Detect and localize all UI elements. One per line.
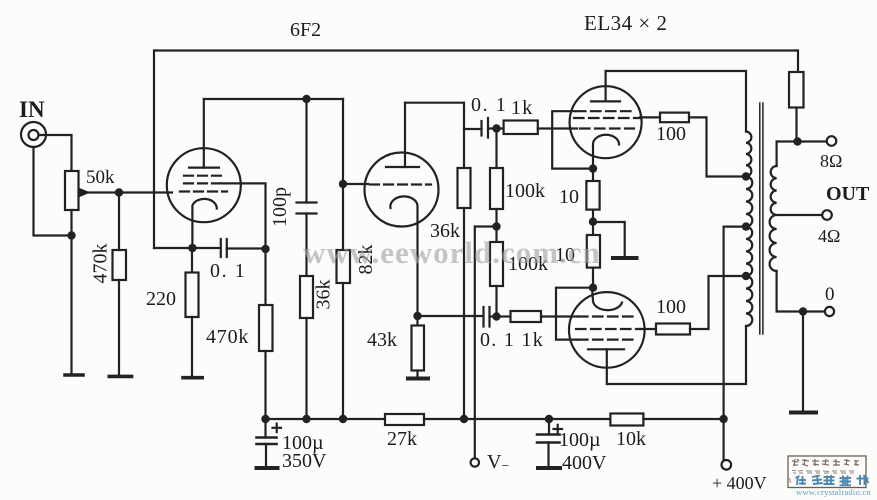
- tube V3 EL34 top envelope: [570, 86, 642, 158]
- svg-text:0: 0: [825, 284, 835, 305]
- transformer T1 core: [759, 103, 761, 334]
- wire: V4 suppressor tie: [556, 288, 592, 340]
- node: V1 plate / 100p: [302, 95, 310, 103]
- svg-text:100p: 100p: [269, 187, 291, 227]
- wire: B+ bus: [266, 418, 386, 420]
- svg-text:+ 400V: + 400V: [712, 473, 767, 493]
- resistor R8 100k grid return top: [495, 129, 497, 167]
- ground: R11: [408, 377, 428, 381]
- svg-text:1k: 1k: [511, 97, 533, 119]
- node: wiper / grid leak: [115, 188, 123, 196]
- capacitor C4 0.1 bottom coupling: [482, 307, 484, 327]
- svg-text:350V: 350V: [282, 450, 327, 472]
- wire: +400V riser and center tap: [724, 227, 746, 460]
- resistor R3 470k screen dropper: [264, 249, 266, 305]
- svg-text:4Ω: 4Ω: [818, 226, 840, 246]
- wire: V1 plate node: [204, 98, 343, 100]
- node: B+ 36k comp: [302, 415, 310, 423]
- node: V1 cathode: [188, 244, 196, 252]
- svg-text:0. 1: 0. 1: [210, 260, 246, 282]
- ground: cathode midpoint: [593, 222, 625, 256]
- node: B+ C5: [261, 415, 269, 423]
- node: V4 grid: [492, 312, 500, 320]
- node: V2 grid coupling: [339, 180, 347, 188]
- ground: C6: [538, 466, 560, 470]
- wire: V3 plate to primary top: [606, 71, 746, 132]
- svg-text:100µ: 100µ: [559, 429, 601, 451]
- svg-text:6F2: 6F2: [290, 19, 321, 41]
- svg-text:470k: 470k: [206, 326, 249, 348]
- wire: direct coupling to V2 grid: [343, 183, 368, 185]
- tube V1 6F2 pentode envelope: [167, 148, 241, 222]
- node: 8 ohm feedback: [793, 137, 801, 145]
- wire: secondary ground: [802, 312, 804, 412]
- node: B+ 82k: [339, 415, 347, 423]
- wire: jack hot to pot top: [39, 135, 72, 171]
- node: UL tap bottom: [742, 272, 750, 280]
- resistor R13 10 cathode top: [592, 169, 594, 181]
- node: B+ 36k V2: [460, 415, 468, 423]
- tube V2 6F2 triode envelope: [365, 153, 439, 227]
- capacitor C1 0.1 screen bypass: [154, 247, 221, 249]
- resistor R17 27k: [385, 414, 424, 425]
- plus sign C5: [273, 427, 282, 429]
- tube V3 g2: [574, 117, 640, 119]
- node: bias V-: [492, 222, 500, 230]
- resistor R2 220 cathode bias: [191, 248, 193, 273]
- potentiometer VR1 50k body: [65, 171, 79, 210]
- tube V4 g1: [578, 315, 636, 317]
- tube V3 plate: [591, 100, 620, 102]
- wire: pot bottom to ground: [70, 210, 72, 374]
- wire: jack shield to pot bottom: [34, 147, 72, 236]
- tube V4 g2: [576, 328, 640, 330]
- resistor R1 470k grid leak: [118, 193, 120, 251]
- resistor R11 43k V2 cathode: [416, 316, 418, 326]
- svg-text:220: 220: [146, 288, 176, 310]
- svg-text:100: 100: [656, 123, 686, 145]
- node: V1 screen: [261, 245, 269, 253]
- capacitor C5 100u 350V: [264, 419, 266, 438]
- tube V3 cathode: [593, 135, 619, 169]
- ground: pot: [65, 373, 83, 377]
- svg-text:100k: 100k: [505, 180, 545, 202]
- wire: wiper node to tube V1 grid: [119, 191, 172, 193]
- resistor R18 10k: [610, 414, 643, 426]
- svg-text:V−: V−: [487, 451, 509, 474]
- node: primary center tap: [742, 222, 750, 230]
- wire: V2 cathode to C4: [418, 315, 484, 317]
- resistor R12 100 screen stopper top: [640, 116, 660, 118]
- tube V4 cathode: [592, 288, 622, 310]
- svg-text:IN: IN: [19, 97, 45, 122]
- terminal: V-: [471, 458, 479, 466]
- terminal: +400V: [722, 460, 732, 470]
- wire: to UL tap top: [689, 117, 746, 176]
- watermark stamp box: [788, 456, 866, 488]
- ground: C5: [257, 466, 278, 470]
- wire: V2 plate to coupling: [405, 103, 464, 129]
- node: V3 cathode: [589, 164, 597, 172]
- node: V4 cathode: [589, 284, 597, 292]
- svg-text:43k: 43k: [367, 329, 397, 351]
- wire: global feedback top frame: [154, 51, 798, 249]
- svg-text:0. 1 1k: 0. 1 1k: [480, 329, 544, 351]
- tube V2 plate: [386, 166, 419, 168]
- tube V1 grid g2: [184, 182, 222, 184]
- node: jack shield / pot bottom: [67, 231, 75, 239]
- wire: V4 plate to primary bottom: [607, 326, 746, 384]
- svg-text:470k: 470k: [90, 244, 112, 284]
- node: V2 cathode out: [413, 312, 421, 320]
- resistor R10 1k grid stopper bottom: [511, 311, 542, 322]
- transformer T1 primary winding: [746, 132, 752, 327]
- capacitor C2 100p compensation: [305, 99, 307, 203]
- terminal: 8 ohm: [827, 136, 837, 146]
- resistor R15 100 screen stopper bottom: [640, 328, 656, 330]
- resistor R16 feedback: [789, 72, 804, 108]
- wire: 4 ohm tap: [777, 214, 824, 216]
- tube V1 grid g1: [180, 190, 227, 192]
- terminal: 0: [825, 307, 834, 316]
- capacitor C6 100u 400V: [548, 419, 550, 435]
- svg-text:36k: 36k: [313, 280, 335, 310]
- resistor R6 36k V2 plate load: [463, 129, 465, 168]
- resistor R4 36k compensation: [300, 276, 313, 318]
- tube V2 grid: [370, 183, 431, 185]
- svg-text:0. 1: 0. 1: [471, 94, 507, 116]
- resistor R5 82k plate load: [342, 99, 344, 250]
- svg-text:10: 10: [559, 186, 579, 208]
- svg-text:50k: 50k: [86, 167, 115, 188]
- terminal: 4 ohm: [822, 210, 832, 220]
- svg-text:OUT: OUT: [826, 183, 870, 205]
- node: B+ C6: [545, 415, 553, 423]
- wire: V1 screen to screen node: [222, 183, 266, 249]
- svg-text:EL34 × 2: EL34 × 2: [584, 11, 668, 35]
- wire: to UL tap bottom: [690, 276, 746, 329]
- transformer T1 secondary winding: [775, 142, 777, 167]
- wire: 8 ohm tap: [777, 140, 828, 142]
- tube V1 plate: [189, 167, 219, 169]
- tube V4 plate: [588, 348, 624, 350]
- resistor R7 1k grid stopper top: [504, 121, 538, 135]
- svg-text:10k: 10k: [616, 428, 646, 450]
- node: secondary ground: [799, 307, 807, 315]
- svg-text:100: 100: [656, 296, 686, 318]
- tube V4 EL34 bottom envelope: [569, 292, 645, 368]
- resistor R14 10 cathode bottom: [587, 235, 600, 268]
- tube V2 cathode: [390, 196, 417, 316]
- node: V3 grid: [492, 124, 500, 132]
- ground: R1: [109, 375, 131, 379]
- node: B+ 400V: [719, 415, 727, 423]
- ground: R2: [183, 376, 202, 380]
- wire: 0 tap: [777, 310, 826, 312]
- svg-text:27k: 27k: [387, 428, 417, 450]
- plus sign C6: [554, 428, 563, 430]
- svg-text:www.crystalradio.cn: www.crystalradio.cn: [796, 487, 871, 497]
- tube V4 g3: [578, 339, 634, 341]
- svg-text:www.eeworld.com.cn: www.eeworld.com.cn: [303, 235, 601, 270]
- node: cathode midpoint: [589, 218, 597, 226]
- svg-text:8Ω: 8Ω: [820, 151, 842, 171]
- potentiometer wiper arrow: [90, 191, 120, 193]
- node: input jack J1: [21, 122, 46, 147]
- svg-text:400V: 400V: [562, 452, 607, 474]
- wire: bias feed V-: [475, 227, 497, 459]
- ground: secondary: [791, 411, 816, 415]
- tube V3 g1: [580, 127, 634, 129]
- wire: V3 suppressor tie: [552, 111, 593, 168]
- node: UL tap top: [742, 172, 750, 180]
- tube V1 cathode: [192, 199, 216, 248]
- resistor R9 100k grid return bottom: [495, 227, 497, 243]
- tube V1 grid g3: [184, 175, 224, 177]
- watermark crystalradio big: [796, 475, 869, 486]
- tube V3 g3: [576, 110, 635, 112]
- capacitor C3 0.1 top coupling: [464, 128, 482, 130]
